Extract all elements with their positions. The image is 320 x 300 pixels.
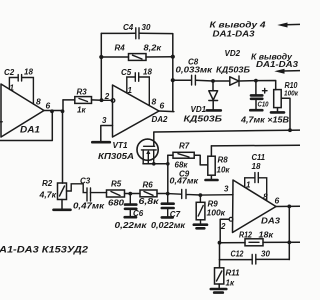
svg-text:КД503Б: КД503Б [216,66,250,75]
svg-text:10к: 10к [217,166,231,175]
svg-text:C3: C3 [80,177,91,186]
svg-text:1: 1 [10,84,15,93]
svg-text:DA1-DA3: DA1-DA3 [213,30,256,39]
svg-text:R4: R4 [115,43,126,52]
svg-text:18: 18 [24,68,33,77]
svg-text:R7: R7 [179,142,190,151]
svg-text:DA1: DA1 [20,124,40,134]
svg-text:0,022мк: 0,022мк [151,221,186,230]
svg-text:100к: 100к [284,88,299,97]
svg-text:100к: 100к [207,208,227,217]
svg-text:R12: R12 [239,230,252,239]
svg-text:30: 30 [261,249,270,258]
svg-text:0,033мк: 0,033мк [176,65,214,74]
svg-text:4,7мк ×15В: 4,7мк ×15В [240,116,289,125]
svg-text:3: 3 [102,116,107,125]
svg-text:КП305А: КП305А [98,152,134,161]
svg-text:680: 680 [108,199,125,208]
svg-text:18: 18 [252,162,261,171]
svg-text:1к: 1к [226,278,235,287]
svg-text:8: 8 [152,97,157,107]
svg-text:R11: R11 [226,269,241,278]
svg-text:R5: R5 [111,180,122,189]
svg-text:8,2к: 8,2к [144,44,163,53]
svg-text:DA1-DA3: DA1-DA3 [256,60,299,69]
svg-text:C7: C7 [170,210,181,219]
svg-text:R8: R8 [218,155,229,164]
svg-text:1: 1 [128,86,133,95]
svg-text:6: 6 [46,101,51,111]
svg-text:C2: C2 [4,68,15,77]
svg-text:C10: C10 [258,101,269,108]
svg-text:0,47мк: 0,47мк [73,202,105,211]
svg-text:DA3: DA3 [261,216,280,226]
svg-text:VD1: VD1 [191,105,207,114]
svg-text:VT1: VT1 [113,141,129,150]
svg-text:18: 18 [143,68,152,77]
svg-text:4,7к: 4,7к [38,191,57,200]
svg-text:VD2: VD2 [225,49,241,58]
svg-text:C6: C6 [133,209,144,218]
svg-text:6: 6 [160,101,165,111]
svg-text:0,47мк: 0,47мк [170,177,200,186]
svg-text:3: 3 [224,184,229,193]
svg-text:R3: R3 [77,87,88,96]
svg-text:18к: 18к [259,230,275,239]
svg-text:C11: C11 [252,153,266,162]
svg-text:1: 1 [246,180,251,189]
svg-text:8: 8 [36,97,41,107]
svg-text:C4: C4 [123,23,134,32]
svg-text:1к: 1к [77,106,86,115]
svg-text:C12: C12 [231,249,244,258]
svg-text:68к: 68к [175,161,189,170]
svg-text:2: 2 [220,222,226,231]
svg-text:6: 6 [275,196,280,206]
svg-text:КД503Б: КД503Б [184,114,223,123]
svg-text:30: 30 [142,23,151,32]
svg-text:0,22мк: 0,22мк [115,221,148,230]
svg-text:А1-DA3 К153УД2: А1-DA3 К153УД2 [0,245,88,255]
svg-text:К выводу 4: К выводу 4 [210,19,266,29]
svg-text:6,8к: 6,8к [139,197,160,206]
svg-text:DA2: DA2 [152,115,169,124]
svg-text:C5: C5 [121,68,132,77]
svg-text:R9: R9 [208,199,219,208]
svg-text:R6: R6 [143,181,154,190]
svg-text:R2: R2 [42,179,53,188]
